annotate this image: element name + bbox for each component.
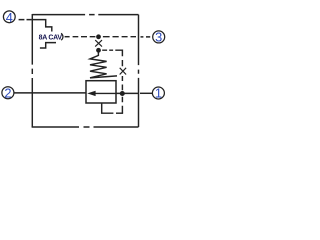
pilot junction dot on port1 wire [120,91,125,96]
wire port 2 to valve [14,92,86,94]
vent node junction dot [96,34,101,39]
svg-text:8A CAV: 8A CAV [39,35,63,42]
wire enclosure to port 1 [140,92,153,94]
wire enclosure to port 3 (dashed) [141,36,151,38]
relief valve element box [86,81,116,103]
cavity plug stub wire [65,36,70,38]
enclosure left edge [31,14,33,127]
svg-text:1: 1 [155,86,162,101]
cavity plug tip [61,33,63,40]
flow arrow head [87,91,95,96]
svg-text:4: 4 [6,10,13,25]
port 2 circle [2,87,14,99]
drain path from valve bottom [102,103,114,113]
svg-text:3: 3 [155,30,162,45]
X blocked symbol on pilot vertical [120,68,126,75]
pilot vertical wire (dashed) [121,50,123,67]
port 1 circle [152,87,164,99]
vent wire to node (dashed) [73,36,96,38]
enclosure bottom edge [32,126,139,128]
adjustment arrow across spring [90,76,117,78]
flow arrow shaft [95,92,116,94]
X blocked symbol on vent axis [95,40,102,47]
spring [90,52,107,78]
pilot vertical wire lower (dashed) [121,76,123,113]
cavity plug 8A CAV upper outline [32,20,52,32]
wire from port 4 to enclosure (dashed) [19,19,32,21]
wire valve to enclosure right [116,92,139,94]
port 4 circle [3,11,15,23]
spring cap node dot [96,48,101,53]
svg-text:2: 2 [4,85,11,100]
cavity plug 8A CAV lower outline [40,43,56,48]
vent wire node to enclosure (dashed) [103,36,136,38]
drain dashed joint [116,112,123,114]
enclosure top edge [32,14,138,16]
port 3 circle [153,31,165,43]
pilot branch wire (dashed) from spring-cap node to right [102,49,122,51]
enclosure right edge [138,15,140,127]
